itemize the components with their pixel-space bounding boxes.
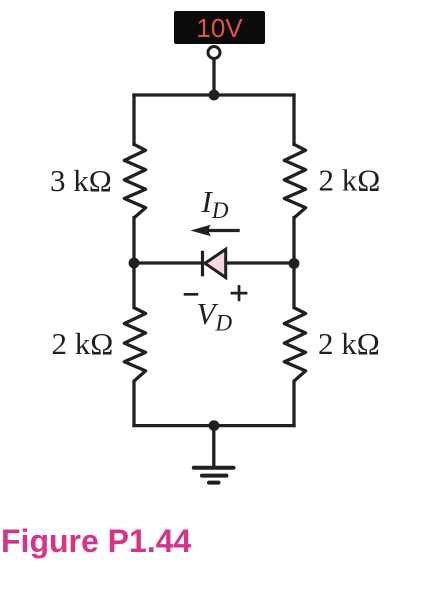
svg-text:VD: VD (197, 296, 233, 336)
wire diode to right node (226, 261, 294, 264)
resistor 3k (left top) (124, 144, 145, 218)
label plus (231, 285, 248, 301)
resistor 2k (right bottom) (284, 308, 305, 382)
wire left rail bottom (132, 380, 135, 427)
wire right rail mid (292, 216, 295, 263)
diode D (triangle) (205, 249, 226, 277)
svg-text:10V: 10V (196, 13, 243, 43)
wire bottom rail (132, 424, 295, 427)
ground (194, 426, 234, 483)
wire left rail upper (132, 93, 135, 146)
node bottom (junction) (209, 420, 220, 431)
figure caption (1, 523, 191, 560)
wire right rail lower (292, 263, 295, 309)
resistor 2k (right top) (284, 144, 305, 218)
terminal (208, 47, 220, 59)
wire left rail mid (132, 216, 135, 263)
wire left rail lower (132, 263, 135, 309)
wire top rail (132, 93, 295, 96)
current arrow I_D (190, 225, 239, 236)
wire right rail bottom (292, 380, 295, 427)
wire supply to top node (212, 60, 215, 96)
label minus (184, 293, 199, 296)
wire left mid to diode (134, 261, 201, 264)
node top (junction) (209, 90, 220, 101)
voltage source 10V (174, 11, 265, 44)
node right mid (junction) (289, 258, 300, 269)
wire right rail upper (292, 93, 295, 146)
node left mid (junction) (129, 258, 140, 269)
svg-text:2 kΩ: 2 kΩ (52, 326, 114, 361)
svg-text:3 kΩ: 3 kΩ (50, 163, 112, 198)
resistor 2k (left bottom) (124, 308, 145, 382)
svg-text:2 kΩ: 2 kΩ (319, 163, 381, 198)
svg-text:2 kΩ: 2 kΩ (318, 326, 380, 361)
diode D (cathode bar) (201, 251, 204, 276)
svg-text:ID: ID (201, 184, 229, 223)
